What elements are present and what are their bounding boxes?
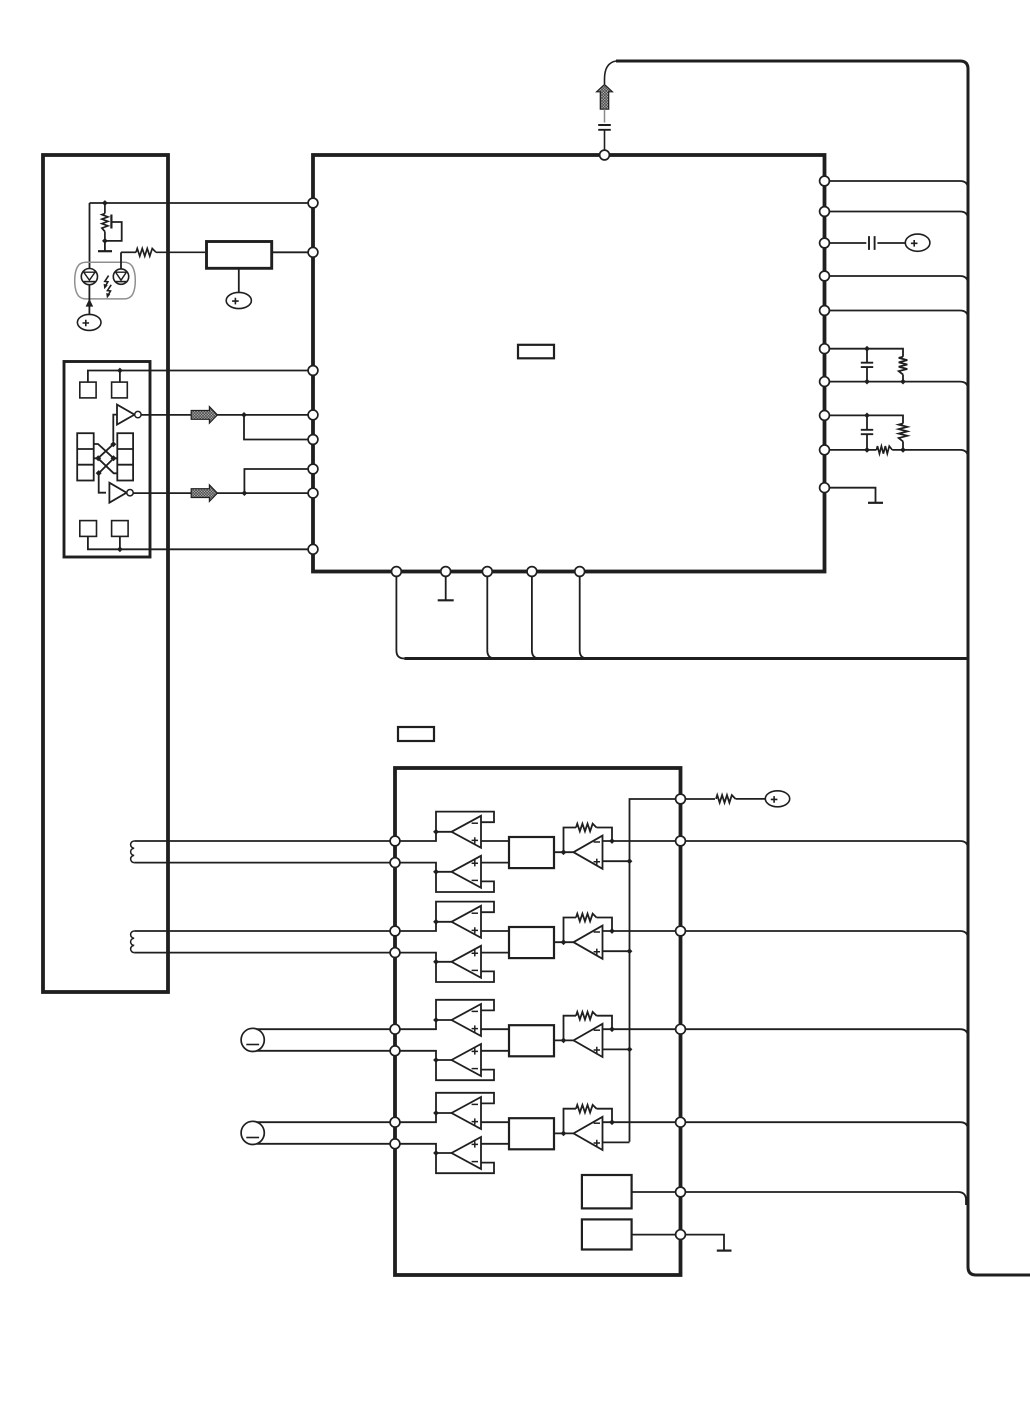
wire: down to optocoupler LED anode: [89, 203, 91, 269]
op-amp A3c (output, points left): [574, 1024, 603, 1057]
wire: square S4 lead: [119, 536, 121, 549]
opto photodiode right (circle + diode): [113, 269, 128, 284]
wire: G1 input from matrix: [113, 415, 117, 442]
wire: square S2 lead: [119, 371, 121, 383]
wire: IC bottom pin 1 to thick bus below: [396, 577, 404, 659]
square S2: [112, 382, 128, 398]
wire: B2 to pin: [632, 1191, 676, 1193]
ch2 wire: A2a output to box: [481, 930, 509, 932]
wire: B3 to pin: [632, 1234, 676, 1236]
resistor R3 (vertical): [899, 357, 908, 375]
terminal + (opto drive): [77, 314, 101, 330]
ch3 feedback loop upper: [436, 1000, 494, 1020]
ch1 head wire upper: pin to amp apex: [400, 832, 452, 841]
ch4 output wire: pin to right bus: [686, 1122, 969, 1130]
equalizer box E4: [509, 1118, 554, 1149]
junction node: [864, 413, 870, 419]
ground: [717, 1249, 732, 1251]
capacitor C3: [866, 349, 868, 363]
ch2 feedback loop upper: [436, 902, 494, 922]
RC network 1 top wire: [830, 349, 904, 357]
wire: cap to terminal: [877, 242, 905, 244]
wire: G2 input from matrix: [99, 471, 106, 493]
RC network 1 bottom wire to bus: [830, 382, 969, 390]
hatched arrow on G1 output: [191, 407, 217, 424]
ground: [438, 599, 454, 601]
ch2 junction node: [627, 948, 633, 954]
RC network 2 bottom wire to bus: [830, 449, 877, 451]
input jack J4 (circle with minus): [241, 1121, 264, 1144]
ch4 junction node: [561, 1131, 567, 1137]
ch1 head wire lower: pin to amp apex: [400, 863, 452, 872]
wire: IC bottom pin 2 to ground: [445, 577, 447, 600]
wire: photodiode top to series resistor: [120, 252, 122, 268]
junction node: [102, 238, 108, 244]
ch3 head wire upper: pin to amp apex: [400, 1020, 452, 1029]
ch3 junction node: [433, 1057, 439, 1063]
wire: B1 to IC pin: [272, 251, 309, 253]
hatched arrow on G2 output: [191, 485, 217, 502]
op-amp A2a (upper, points left): [452, 906, 482, 938]
ch1 wire: A1b output to box: [481, 862, 509, 864]
transistor/trimmer bracket beside R1: [110, 215, 112, 229]
square S4: [112, 521, 129, 537]
tape head L1 (coil): [131, 841, 135, 863]
wire: IC bottom pin 5 to bus: [580, 577, 588, 659]
IC right-side pins: [820, 176, 830, 186]
wire: top bus left hook down to power arrow: [605, 61, 617, 84]
resistor R1 (vertical): [104, 203, 106, 214]
junction node: [864, 346, 870, 352]
ch1 bias connection (+ input): [603, 860, 630, 862]
ch4 junction node: [433, 1150, 439, 1156]
junction node: [102, 200, 108, 206]
equalizer box E3: [509, 1025, 554, 1056]
ch1 output wire: amp to block pin: [603, 840, 676, 842]
wire: branch up to IC pin: [244, 469, 308, 493]
matrix right stack (3 squares): [117, 433, 133, 480]
power arrow (hatched, pointing up): [597, 85, 613, 110]
node: IC top pin: [600, 150, 610, 160]
wire: branch down to IC pin: [244, 415, 309, 440]
IC bottom-side pins: [392, 567, 402, 577]
label box above lower block (empty): [398, 727, 434, 741]
optical coupling lightning bolts: [105, 276, 109, 286]
feedback resistor R2f: [564, 918, 577, 943]
ch3 wire: A3a output to box: [481, 1028, 509, 1030]
square S3: [80, 521, 97, 537]
ch4 wire: A4a output to box: [481, 1121, 509, 1123]
ch4 junction node: [433, 1110, 439, 1116]
ch4 bias connection (+ input): [603, 1141, 630, 1143]
op-amp A4a (upper, points left): [452, 1097, 482, 1129]
ch4 output wire: amp to block pin: [603, 1121, 676, 1123]
IC left-side pins: [308, 198, 318, 208]
ch4 wire: box to output amp: [554, 1132, 574, 1134]
op-amp A3a (upper, points left): [452, 1004, 482, 1036]
ch2 head wire upper: pin to amp apex: [400, 922, 452, 931]
IC U1 main block: [313, 155, 825, 572]
ch2 output wire: pin to right bus: [686, 931, 969, 939]
equalizer box E2: [509, 927, 554, 958]
optocoupler body outline: [75, 262, 136, 299]
ch3 junction node: [433, 1017, 439, 1023]
wire: LED cathode down with up-arrow: [88, 285, 90, 315]
bias wire: top-right pin to vertical bias rail: [630, 799, 676, 1142]
ch1 junction node: [609, 838, 615, 844]
lower block right-side pins: [676, 794, 686, 804]
ch2 junction node: [609, 928, 615, 934]
capacitor C4: [866, 415, 868, 429]
matrix left stack (3 squares): [77, 433, 94, 480]
wire: IC pin to bus (2): [830, 212, 969, 220]
capacitor C2: [869, 236, 875, 250]
wire: IC pin1 line to left circuit: [90, 202, 309, 204]
junction node: [241, 412, 247, 418]
wire: capacitor to IC top pin: [604, 130, 606, 152]
ch1 feedback loop upper: [436, 812, 494, 832]
ch2 output wire: amp to block pin: [603, 930, 676, 932]
ch1 output wire: pin to right bus: [686, 841, 969, 849]
ch3 junction node: [627, 1047, 633, 1053]
equalizer box E1: [509, 837, 554, 868]
left unit enclosure box: [43, 155, 168, 992]
ch4 wire: A4b output to box: [481, 1143, 509, 1145]
resistor R5 (horizontal, in bottom wire): [877, 446, 893, 454]
ch2 wire: A2b output to box: [481, 952, 509, 954]
jack J4 wires to block pins: [257, 1121, 390, 1123]
resistor R4 (vertical): [899, 424, 908, 442]
wire: G2 output to IC pin: [133, 492, 308, 494]
input jack J3 (circle with minus): [241, 1028, 264, 1051]
op-amp A4c (output, points left): [574, 1117, 603, 1150]
op-amp A2b (lower, points left): [452, 946, 482, 978]
wire: top supply bus to right-side bus: [616, 61, 1030, 1275]
wire: G1 output to IC pin: [141, 414, 308, 416]
jack J3 wires to block pins: [257, 1028, 390, 1030]
ch1 junction node: [561, 849, 567, 855]
lower block left-side pins: [390, 836, 400, 846]
ch4 head wire lower: pin to amp apex: [400, 1144, 452, 1153]
wire: B2 pin to right bus: [686, 1192, 967, 1205]
ch1 wire: box to output amp: [554, 851, 574, 853]
wire: IC pin to cap: [830, 242, 867, 244]
ch3 feedback loop lower: [436, 1060, 494, 1080]
head L1 wires to block pins: [134, 840, 390, 842]
junction node: [242, 490, 248, 496]
ch2 wire: box to output amp: [554, 941, 574, 943]
ch4 feedback loop upper: [436, 1093, 494, 1113]
ch4 junction node: [609, 1119, 615, 1125]
ch1 junction node: [627, 858, 633, 864]
junction node: [117, 368, 123, 374]
logic sub-block enclosure: [64, 362, 150, 558]
wire: logic bottom line to IC pin: [88, 536, 309, 549]
feedback resistor R4f: [564, 1109, 577, 1134]
square S1: [80, 382, 96, 398]
feedback resistor R3f: [564, 1016, 577, 1041]
block B3 (bottom aux box 2): [582, 1219, 632, 1249]
RC network 2 top wire: [830, 415, 904, 423]
wire: B1 bottom lead: [238, 268, 240, 292]
ch4 feedback loop lower: [436, 1153, 494, 1173]
matrix cross wires with arrowheads: [94, 444, 118, 458]
terminal + under B1: [226, 292, 251, 308]
ch1 junction node: [433, 829, 439, 835]
resistor R2 (horizontal): [121, 251, 136, 253]
opto LED left (circle + diode): [81, 269, 97, 285]
ch2 junction node: [433, 959, 439, 965]
ch3 output wire: amp to block pin: [603, 1028, 676, 1030]
ch3 output wire: pin to right bus: [686, 1029, 969, 1037]
inverter G2: [109, 483, 126, 503]
op-amp A3b (lower, points left): [452, 1044, 482, 1076]
op-amp A1b (lower, points left): [452, 856, 482, 888]
op-amp A2c (output, points left): [574, 926, 603, 959]
ch2 bias connection (+ input): [603, 950, 630, 952]
junction node: [117, 546, 123, 552]
ground: [868, 502, 883, 504]
block B2 (bottom aux box 1): [582, 1175, 632, 1208]
wire: B3 pin to ground: [686, 1235, 725, 1250]
wire: IC pin to bus (3): [830, 276, 969, 284]
wire: IC pin to bus (4): [830, 311, 969, 319]
wire: logic top line to IC pin: [88, 371, 309, 383]
block B1 (regulator box): [207, 242, 272, 269]
wire: resistor to terminal: [736, 798, 766, 800]
terminal + right side: [905, 234, 930, 251]
ch2 junction node: [561, 939, 567, 945]
op-amp A4b (lower, points left): [452, 1137, 482, 1169]
ch3 wire: A3b output to box: [481, 1050, 509, 1052]
ch2 feedback loop lower: [436, 962, 494, 982]
ch4 head wire upper: pin to amp apex: [400, 1113, 452, 1122]
op-amp A1c (output, points left): [574, 836, 603, 869]
ch3 bias connection (+ input): [603, 1048, 630, 1050]
capacitor at top of IC: [598, 125, 611, 130]
ch3 junction node: [561, 1038, 567, 1044]
ch1 wire: A1a output to box: [481, 840, 509, 842]
ch3 junction node: [609, 1026, 615, 1032]
ch3 head wire lower: pin to amp apex: [400, 1051, 452, 1060]
wire: IC pin to bus (1): [830, 181, 969, 189]
lower amplifier block U2: [395, 768, 681, 1275]
ch2 head wire lower: pin to amp apex: [400, 953, 452, 962]
wire + ground below R1: [104, 241, 106, 251]
junction nodes: [864, 379, 870, 385]
feedback resistor R1f: [564, 828, 577, 853]
inverter G1: [117, 405, 135, 425]
junction nodes: [864, 447, 870, 453]
ch2 junction node: [433, 919, 439, 925]
resistor R6 (horizontal): [716, 795, 736, 803]
wire: IC pin to ground: [830, 488, 876, 503]
op-amp A1a (upper, points left): [452, 816, 482, 848]
tape head L2 (coil): [131, 931, 135, 953]
ch1 feedback loop lower: [436, 872, 494, 892]
thick wire: IC bottom bus to right bus: [404, 657, 966, 660]
wire: IC bottom pin 4 to bus: [532, 577, 540, 659]
wire: bias pin to resistor: [686, 798, 716, 800]
wire: IC bottom pin 3 to bus: [487, 577, 495, 659]
label box inside IC (empty): [518, 345, 554, 359]
wire: arrow tail to capacitor: [604, 109, 606, 122]
terminal + bias: [765, 791, 789, 807]
ch3 wire: box to output amp: [554, 1039, 574, 1041]
head L2 wires to block pins: [134, 930, 390, 932]
ch1 junction node: [433, 869, 439, 875]
